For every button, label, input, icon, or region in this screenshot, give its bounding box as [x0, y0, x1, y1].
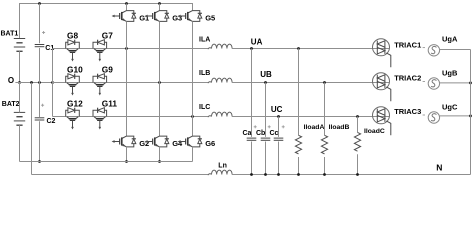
- node UC / Cc junction (junction): [277, 115, 280, 118]
- tick after TRIAC2 label: [423, 81, 425, 83]
- wire leg2 vertical (G3 emitter to G4 collector): [159, 21, 161, 136]
- svg-text:G8: G8: [67, 31, 78, 41]
- AC source UgC: [428, 112, 439, 123]
- wire O to N vertical: [31, 83, 33, 175]
- wire IloadC lower lead: [357, 154, 359, 174]
- wire leg1 vertical (G1 emitter to G2 collector): [126, 21, 128, 136]
- node O / neutral-drop junction (junction): [30, 81, 33, 84]
- resistor IloadA: [295, 135, 301, 154]
- triac TRIAC2: [373, 73, 391, 102]
- wire phase B line (left of ILB): [53, 82, 209, 84]
- wire IloadC upper lead: [357, 117, 359, 133]
- node DC- / C2 junction (junction): [38, 160, 41, 163]
- transistor G8 (IGBT with antiparallel diode, bidirectional pair cell): [66, 40, 80, 62]
- node UA / IloadA junction (junction): [297, 47, 300, 50]
- AC source UgA: [428, 45, 439, 56]
- wire O line: [15, 82, 52, 84]
- node DC- / G2 junction (junction): [125, 160, 128, 163]
- svg-text:G6: G6: [205, 139, 215, 148]
- wire G1 collector stub: [126, 4, 128, 11]
- node O / pairs vertical junction (junction): [51, 81, 54, 84]
- wire C1 to O: [39, 48, 41, 83]
- AC source UgB: [428, 78, 439, 89]
- capacitor Ca: [247, 138, 257, 140]
- svg-text:UgB: UgB: [442, 69, 458, 78]
- transistor G2 (IGBT with antiparallel diode): [112, 136, 136, 147]
- svg-text:G2: G2: [139, 139, 149, 148]
- svg-text:BAT1: BAT1: [1, 31, 19, 38]
- battery BAT1: [14, 39, 25, 52]
- wire G6 emitter to DC- rail: [192, 147, 194, 162]
- node DC+ / G3 (junction): [158, 2, 161, 5]
- wire IloadA lower lead: [298, 157, 300, 175]
- triac TRIAC3: [373, 107, 391, 136]
- svg-text:G9: G9: [102, 65, 113, 75]
- svg-text:C2: C2: [47, 118, 56, 125]
- svg-text:N: N: [436, 162, 442, 172]
- node N / IloadC junction (junction): [356, 173, 359, 176]
- wire IloadB lower lead: [324, 157, 326, 175]
- svg-text:UgA: UgA: [442, 35, 458, 44]
- resistor IloadC: [354, 132, 360, 151]
- wire UgA to right rail: [440, 49, 471, 51]
- inductor ILA: [208, 44, 232, 49]
- svg-text:G1: G1: [139, 13, 149, 22]
- wire N line (right of Ln): [232, 174, 471, 176]
- node UC / IloadC junction (junction): [356, 115, 359, 118]
- svg-text:G11: G11: [102, 98, 118, 108]
- svg-text:O: O: [8, 76, 14, 85]
- capacitor Cc: [274, 138, 284, 140]
- svg-text:G7: G7: [102, 31, 113, 41]
- wire phase A line (left of ILA): [53, 48, 209, 50]
- wire DC+ to C1: [39, 4, 41, 44]
- wire BAT1- to O: [19, 51, 21, 82]
- wire G5 collector stub: [192, 4, 194, 11]
- wire C2 to DC- rail: [39, 121, 41, 161]
- svg-text:Ln: Ln: [218, 163, 227, 170]
- node N / IloadA junction (junction): [297, 173, 300, 176]
- wire bidirectional-switch common vertical: [52, 49, 54, 117]
- svg-text:IloadC: IloadC: [364, 128, 385, 135]
- transistor G6 (IGBT with antiparallel diode): [178, 136, 202, 147]
- node phase C / leg 3 junction (junction): [191, 115, 194, 118]
- transistor G3 (IGBT with antiparallel diode): [145, 11, 169, 22]
- wire G2 emitter to DC- rail: [126, 147, 128, 162]
- tick after TRIAC1 label: [423, 47, 425, 49]
- node right rail / UgC junction (junction): [469, 115, 472, 118]
- polarity mark + for Cb: [268, 125, 271, 128]
- transistor G12 (IGBT with antiparallel diode, bidirectional pair cell): [66, 108, 80, 130]
- node DC+ / C1 (junction): [38, 2, 41, 5]
- wire N line (left of Ln): [32, 174, 209, 176]
- wire UC line: [232, 116, 390, 118]
- svg-text:Cc: Cc: [270, 130, 279, 137]
- triac TRIAC1: [373, 39, 391, 68]
- capacitor C2: [35, 118, 45, 120]
- wire G4 emitter to DC- rail: [159, 147, 161, 162]
- top DC+ rail: [20, 4, 193, 39]
- wire IloadA upper lead: [298, 49, 300, 136]
- svg-text:G12: G12: [67, 98, 83, 108]
- wire Cb upper lead: [265, 83, 267, 137]
- wire Ca upper lead: [251, 49, 253, 137]
- wire right rail (grid return): [470, 50, 472, 175]
- wire phase C line (left of ILC): [53, 116, 209, 118]
- wire bottom DC- rail: [20, 161, 193, 163]
- wire BAT2- to DC- rail: [19, 125, 21, 161]
- node phase B / leg 2 junction (junction): [158, 81, 161, 84]
- battery BAT2: [14, 112, 25, 125]
- svg-text:UB: UB: [260, 70, 272, 79]
- svg-text:G5: G5: [205, 13, 215, 22]
- transistor G1 (IGBT with antiparallel diode): [112, 11, 136, 22]
- node DC- / G4 junction (junction): [158, 160, 161, 163]
- svg-text:BAT2: BAT2: [2, 101, 20, 108]
- wire UgB to right rail: [440, 82, 471, 84]
- wire Cb lower lead: [265, 142, 267, 175]
- polarity mark + for Ca: [254, 125, 257, 128]
- node N / Ca junction (junction): [250, 173, 253, 176]
- svg-text:Cb: Cb: [256, 130, 265, 137]
- wire Cc upper lead: [278, 117, 280, 137]
- svg-text:G3: G3: [172, 13, 182, 22]
- transistor G7 (IGBT with antiparallel diode, bidirectional pair cell): [93, 40, 107, 62]
- node UA / Ca junction (junction): [250, 47, 253, 50]
- wire IloadB upper lead: [324, 83, 326, 136]
- svg-text:TRIAC1: TRIAC1: [394, 41, 421, 50]
- svg-text:IloadB: IloadB: [329, 124, 350, 131]
- svg-text:UC: UC: [271, 105, 283, 114]
- wire O to BAT2+: [19, 83, 21, 113]
- svg-text:UgC: UgC: [442, 103, 458, 112]
- node DC+ / G1 (junction): [125, 2, 128, 5]
- inductor Ln: [208, 170, 232, 175]
- node UB / IloadB junction (junction): [323, 81, 326, 84]
- svg-text:G4: G4: [172, 139, 183, 148]
- wire leg3 vertical (G5 emitter to G6 collector): [192, 21, 194, 136]
- transistor G5 (IGBT with antiparallel diode): [178, 11, 202, 22]
- svg-text:IloadA: IloadA: [304, 124, 325, 131]
- capacitor Cb: [261, 138, 271, 140]
- node O / C1-C2 junction (junction): [38, 81, 41, 84]
- wire UB line: [232, 82, 390, 84]
- svg-text:ILB: ILB: [199, 70, 210, 77]
- wire Ca lower lead: [251, 142, 253, 175]
- node N / Cb junction (junction): [264, 173, 267, 176]
- svg-text:G10: G10: [67, 65, 83, 75]
- node N / Cc junction (junction): [277, 173, 280, 176]
- wire O to C2: [39, 83, 41, 118]
- svg-text:ILC: ILC: [199, 104, 210, 111]
- polarity mark + for Cc: [282, 125, 285, 128]
- transistor G10 (IGBT with antiparallel diode, bidirectional pair cell): [66, 74, 80, 96]
- capacitor C1: [35, 45, 45, 47]
- transistor G4 (IGBT with antiparallel diode): [145, 136, 169, 147]
- wire Cc lower lead: [278, 142, 280, 175]
- node right rail / UgB junction (junction): [469, 82, 472, 85]
- wire UA line: [232, 48, 390, 50]
- tick after TRIAC3 label: [423, 114, 425, 116]
- svg-text:UA: UA: [251, 37, 263, 46]
- node UB / Cb junction (junction): [264, 81, 267, 84]
- inductor ILC: [208, 112, 232, 117]
- node phase A / leg 1 junction (junction): [125, 47, 128, 50]
- resistor IloadB: [321, 135, 327, 154]
- transistor G9 (IGBT with antiparallel diode, bidirectional pair cell): [93, 74, 107, 96]
- svg-text:TRIAC2: TRIAC2: [394, 73, 421, 82]
- polarity mark + for C1: [42, 31, 45, 34]
- transistor G11 (IGBT with antiparallel diode, bidirectional pair cell): [93, 108, 107, 130]
- node N / IloadB junction (junction): [323, 173, 326, 176]
- wire G3 collector stub: [159, 4, 161, 11]
- node O / BAT junction (junction): [18, 81, 21, 84]
- polarity mark + for C2: [41, 104, 44, 107]
- svg-text:TRIAC3: TRIAC3: [394, 107, 421, 116]
- svg-text:Ca: Ca: [243, 130, 252, 137]
- inductor ILB: [208, 78, 232, 83]
- svg-text:ILA: ILA: [199, 36, 210, 43]
- wire UgC to right rail: [440, 115, 471, 117]
